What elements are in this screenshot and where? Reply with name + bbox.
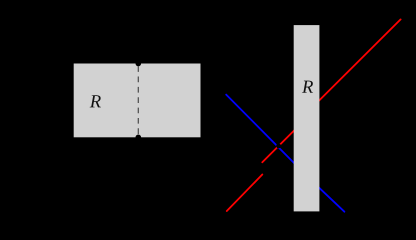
label R (right panel) (302, 81, 313, 93)
label R (left panel) (90, 95, 101, 107)
red ray segment A (incoming, lower left) (227, 175, 262, 212)
node (bottom dot) (136, 135, 142, 141)
red ray segment C (exits slab, upper right) (313, 19, 401, 106)
node (top dot) (136, 61, 142, 67)
red ray segment B (after jump, enters slab) (262, 127, 298, 163)
dashed cut line (137, 66, 139, 137)
slab R (right panel) (294, 25, 320, 211)
crossing gap (black diamond where rays cross) (276, 144, 281, 149)
blue ray segment E (exits slab, lower right) (316, 185, 344, 212)
slab R (left panel, two halves shown joined) (74, 64, 201, 138)
blue ray segment D (incoming, enters slab) (226, 95, 297, 166)
